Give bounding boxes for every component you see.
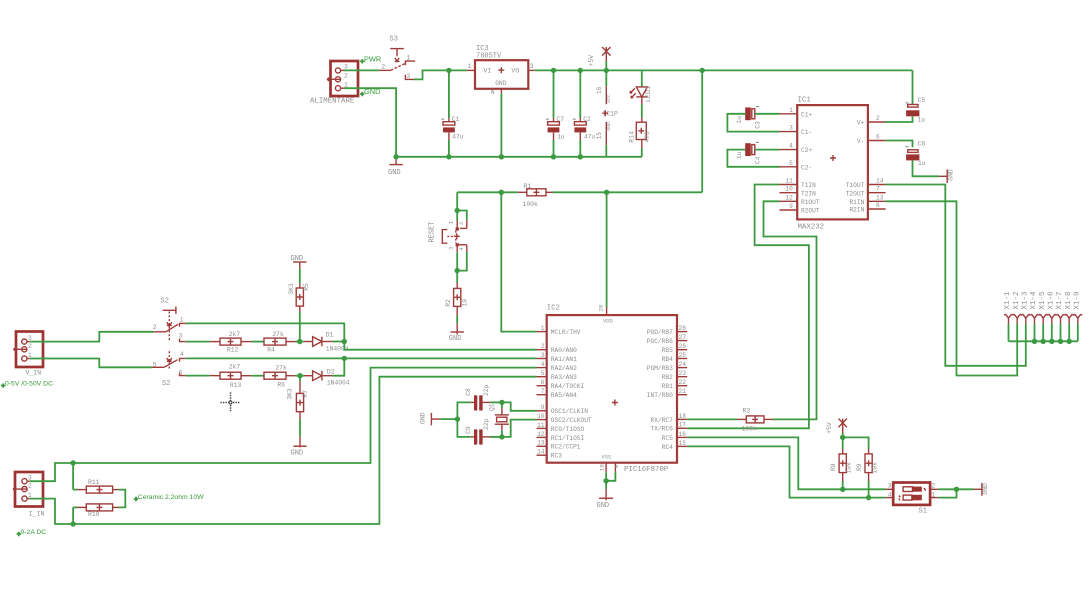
svg-text:3: 3 (406, 73, 410, 80)
wire node to RA0 (344, 342, 536, 350)
wire R1 net to VDD (606, 192, 608, 307)
svg-text:14: 14 (537, 449, 545, 456)
svg-text:2: 2 (28, 483, 32, 490)
node R9/S1 junction (866, 495, 871, 500)
svg-text:RA4/T0CKI: RA4/T0CKI (551, 383, 585, 390)
pin X1-6 (1048, 314, 1057, 318)
svg-text:C8: C8 (465, 388, 472, 396)
svg-text:T2OUT: T2OUT (846, 190, 865, 197)
power pins IC1P (605, 70, 607, 86)
resistor R14 (636, 122, 646, 139)
resistor R8 10k (842, 437, 844, 449)
svg-text:47u: 47u (452, 134, 463, 141)
svg-text:R1OUT: R1OUT (801, 199, 820, 206)
node D1/RA0 junction (342, 339, 347, 344)
svg-text:R9: R9 (856, 463, 863, 471)
svg-text:V+: V+ (857, 120, 865, 127)
svg-text:T1OUT: T1OUT (846, 182, 865, 189)
IC2 pin 15 RC4 (677, 445, 687, 447)
svg-text:TX/RC6: TX/RC6 (651, 426, 674, 433)
svg-text:GND: GND (495, 80, 506, 87)
svg-text:RB5: RB5 (662, 347, 673, 354)
S3 contact 1 (405, 61, 415, 65)
IC1 pin 13 R1IN (868, 200, 886, 202)
svg-text:3: 3 (530, 63, 534, 70)
wire X1-6 to bus (1051, 324, 1053, 342)
svg-text:2: 2 (932, 482, 936, 489)
IC1 pin 1 C1+ (780, 113, 798, 115)
S2b contact 6 (180, 373, 186, 376)
svg-text:R2: R2 (445, 299, 452, 307)
svg-text:GND: GND (982, 483, 989, 495)
svg-text:R7: R7 (302, 390, 309, 398)
svg-text:C7: C7 (556, 116, 564, 123)
wire node down to D2 cathode (333, 358, 345, 375)
wire to OSC1 (502, 402, 537, 410)
wire X1-9 to bus (1077, 324, 1079, 342)
IC2 pin 1 MCLR/THV (537, 331, 547, 333)
wire D1 cathode to node (333, 341, 345, 343)
svg-text:22p: 22p (483, 384, 490, 396)
wire RC4 to S1 pin4 (687, 446, 886, 497)
svg-text:10: 10 (537, 413, 545, 420)
pin X1-1 (1004, 314, 1013, 318)
svg-text:VDD: VDD (603, 318, 613, 324)
svg-text:RC4: RC4 (662, 444, 673, 451)
svg-text:14: 14 (876, 178, 884, 185)
wire S2a throw3 to R12 (186, 341, 210, 343)
svg-text:C5: C5 (918, 97, 926, 104)
IC2 pin 9 OSC1/CLKIN (537, 410, 547, 412)
wire I_IN pin3 to RA2 (30, 368, 537, 482)
wire R1 to RESET switch (456, 192, 458, 210)
label Ceramic 2,2ohm 10W (134, 497, 138, 501)
IC2 pin 10 OSC2/CLKOUT (537, 419, 547, 421)
svg-text:20: 20 (598, 304, 605, 311)
svg-text:C9: C9 (465, 426, 472, 434)
svg-text:RC0/T1OSO: RC0/T1OSO (551, 426, 585, 433)
IC1 pin 4 C2+ (780, 149, 798, 151)
svg-text:1: 1 (406, 55, 410, 62)
svg-text:4: 4 (888, 491, 892, 498)
wire X1-4 to bus (1034, 324, 1036, 342)
label GND (360, 92, 364, 96)
svg-text:9: 9 (789, 203, 793, 210)
wire X1-7 to bus (1060, 324, 1062, 342)
svg-text:18: 18 (679, 413, 687, 420)
wire S3 pin3 to +5V rail (414, 70, 449, 79)
IC2 pin 13 RC2/CCP1 (537, 445, 547, 447)
pin X1-2 (1013, 314, 1022, 318)
svg-text:1u: 1u (918, 160, 926, 167)
svg-text:2: 2 (344, 73, 348, 80)
pin X1-9 (1074, 314, 1083, 318)
svg-text:9: 9 (541, 404, 545, 411)
pin X1-7 (1056, 314, 1065, 318)
ground symbol right of C6 (939, 175, 947, 177)
svg-text:R1IN: R1IN (849, 199, 864, 206)
svg-text:D2: D2 (327, 368, 335, 375)
svg-text:23: 23 (679, 370, 687, 377)
svg-text:22: 22 (679, 379, 687, 386)
svg-text:22p: 22p (483, 418, 490, 430)
svg-text:X1-4: X1-4 (1030, 291, 1038, 310)
svg-text:MCLR/THV: MCLR/THV (551, 329, 581, 336)
S2a arm (154, 331, 166, 333)
node I_IN bottom junction (70, 521, 75, 526)
wire S2a throw1 to RA0 corner (186, 323, 344, 341)
wire V_IN pin1 to S2b common (30, 359, 152, 368)
wire X1-8 to bus (1068, 324, 1070, 342)
V_IN pin 2 stub (13, 347, 27, 351)
IC1 pin 14 T1OUT (868, 184, 886, 186)
S3 contact 3 (405, 75, 414, 80)
wire X1-5 to bus (1042, 324, 1044, 342)
IC2 pin 14 RC3 (537, 454, 547, 456)
IC2 pin 3 RA1/AN1 (537, 358, 547, 360)
svg-text:16: 16 (679, 431, 687, 438)
svg-text:0-5V /0-50V DC: 0-5V /0-50V DC (5, 381, 53, 388)
svg-text:Ceramic 2,2ohm 10W: Ceramic 2,2ohm 10W (138, 494, 204, 501)
+5V supply symbol (pullups) (839, 419, 847, 434)
capacitor C7 (553, 70, 555, 118)
svg-text:GND: GND (449, 335, 462, 343)
svg-text:13: 13 (537, 440, 545, 447)
connector V_IN (16, 332, 43, 368)
IC2 pin 7 RA5/AN4 (537, 394, 547, 396)
svg-text:VSS: VSS (602, 454, 612, 460)
svg-text:3: 3 (789, 125, 793, 132)
svg-text:2k7: 2k7 (229, 331, 241, 338)
svg-text:T1IN: T1IN (801, 182, 816, 189)
svg-text:R13: R13 (230, 382, 242, 389)
svg-text:R2IN: R2IN (849, 207, 864, 214)
svg-text:GND: GND (419, 412, 426, 424)
svg-text:17: 17 (679, 422, 687, 429)
IC1 pin 11 T1IN (780, 184, 798, 186)
connector I_IN (15, 472, 43, 507)
svg-text:GND: GND (606, 122, 612, 131)
IC2 VDD pin (606, 307, 608, 315)
svg-text:C2+: C2+ (801, 147, 812, 154)
I_IN pin 2 stub (13, 487, 28, 491)
wire C3 to C1- pin (727, 114, 779, 132)
svg-text:2: 2 (381, 63, 385, 70)
svg-text:1N4004: 1N4004 (327, 379, 350, 386)
svg-text:S2: S2 (161, 297, 169, 305)
wire S2b throw6 to R13 (186, 375, 210, 377)
svg-text:3K3: 3K3 (288, 283, 295, 295)
svg-text:R14: R14 (629, 131, 636, 143)
svg-text:2: 2 (153, 324, 157, 331)
svg-text:RA2/AN2: RA2/AN2 (551, 365, 577, 372)
svg-text:RB4: RB4 (662, 356, 673, 363)
svg-text:X1-6: X1-6 (1047, 291, 1055, 310)
svg-text:8: 8 (613, 464, 620, 468)
node R1/RESET junction (455, 208, 460, 213)
svg-text:2: 2 (876, 115, 880, 122)
svg-text:6: 6 (179, 370, 183, 377)
wire R13 to R6 (251, 375, 264, 377)
svg-text:25: 25 (679, 352, 687, 359)
svg-text:C2-: C2- (801, 164, 812, 171)
svg-text:R6: R6 (277, 381, 285, 388)
capacitor C4 1u (745, 143, 751, 156)
svg-text:470: 470 (644, 131, 651, 143)
svg-text:R3: R3 (743, 408, 751, 415)
svg-text:C1: C1 (452, 116, 460, 123)
wire R1IN to X1-2 (886, 201, 1018, 375)
svg-text:RC3: RC3 (551, 453, 562, 460)
capacitor C8 22p (457, 402, 470, 419)
wire R1OUT to R3 (764, 201, 817, 419)
capacitor C3 1u (745, 107, 751, 120)
svg-text:X1-8: X1-8 (1065, 291, 1073, 310)
svg-text:MAX232: MAX232 (798, 224, 825, 232)
svg-text:IC2: IC2 (547, 305, 560, 313)
ground symbol below IC2 (605, 481, 607, 490)
connector ALIMENTARE (331, 61, 359, 96)
svg-text:47u: 47u (584, 134, 595, 141)
svg-text:X1-3: X1-3 (1021, 291, 1029, 310)
IC2 pin 18 RX/RC7 (677, 418, 687, 420)
bus wire X1 (1009, 340, 1078, 342)
svg-text:R8: R8 (830, 463, 837, 471)
svg-text:X1-7: X1-7 (1056, 291, 1064, 309)
svg-text:2k7: 2k7 (229, 364, 241, 371)
svg-text:27: 27 (679, 334, 687, 341)
svg-text:R12: R12 (227, 346, 239, 353)
label 0-2A DC (17, 532, 21, 536)
IC2 VSS pins 19 and 8 (605, 463, 607, 473)
svg-text:C3: C3 (754, 121, 761, 129)
IC1 pin 2 V+ (868, 121, 886, 123)
wire ALIMENTARE pin3 to S3 (344, 69, 379, 71)
svg-text:X1-5: X1-5 (1039, 291, 1047, 310)
RESET button actuator (442, 230, 447, 244)
wire ALIMENTARE pin1 to ground rail (344, 88, 396, 157)
svg-text:C4: C4 (754, 156, 761, 164)
svg-text:8: 8 (876, 202, 880, 209)
node C8/C9 gnd junction (455, 416, 460, 421)
IC2 pin 26 RB5 (677, 349, 687, 351)
svg-text:15: 15 (679, 440, 687, 447)
svg-text:100k: 100k (742, 425, 758, 432)
svg-text:5: 5 (153, 361, 157, 368)
svg-text:GND: GND (388, 169, 401, 177)
wire R12 to R4 (251, 341, 264, 343)
svg-text:N: N (491, 89, 495, 96)
svg-text:21: 21 (679, 388, 687, 395)
svg-text:27k: 27k (272, 331, 284, 338)
svg-text:10: 10 (462, 299, 469, 307)
pin X1-5 (1039, 314, 1048, 318)
svg-text:PIC16F870P: PIC16F870P (624, 466, 669, 474)
svg-text:S3: S3 (390, 36, 398, 44)
svg-text:6: 6 (876, 134, 880, 141)
svg-text:OSC1/CLKIN: OSC1/CLKIN (551, 408, 588, 415)
wire S1 pin1 to ground (938, 489, 956, 497)
wire X1-1 to bus (1008, 324, 1010, 342)
wire R11 to R10 (right side) (119, 490, 126, 508)
wire R1 net (457, 191, 518, 193)
svg-text:1: 1 (448, 221, 455, 225)
svg-text:2: 2 (458, 221, 465, 225)
IC2 pin 16 RC5 (677, 436, 687, 438)
frame reference cross (221, 392, 241, 412)
svg-text:X1-1: X1-1 (1004, 291, 1012, 310)
label 0-5V /0-50V DC (1, 383, 5, 387)
svg-text:4: 4 (458, 247, 465, 251)
svg-text:1u: 1u (736, 116, 743, 124)
svg-text:6: 6 (541, 379, 545, 386)
svg-text:2: 2 (28, 343, 32, 350)
svg-text:C6: C6 (918, 141, 926, 148)
IC1 pin 12 R1OUT (780, 200, 798, 202)
+5V supply symbol (602, 47, 610, 62)
svg-text:T2IN: T2IN (801, 190, 816, 197)
svg-text:1: 1 (180, 316, 184, 323)
svg-text:27k: 27k (275, 364, 287, 371)
svg-text:24: 24 (679, 361, 687, 368)
S3 arm (379, 69, 391, 71)
svg-text:28: 28 (679, 325, 687, 332)
svg-text:4: 4 (789, 143, 793, 150)
ground symbol below R2 (451, 331, 464, 333)
resistor R9 10k (843, 437, 869, 449)
svg-text:D1: D1 (326, 332, 334, 339)
svg-text:X1-2: X1-2 (1013, 291, 1021, 310)
svg-text:10: 10 (785, 186, 793, 193)
IC2 pin 11 RC0/T1OSO (537, 427, 547, 429)
svg-text:3: 3 (179, 332, 183, 339)
LED1 (641, 70, 643, 87)
svg-text:100k: 100k (523, 201, 539, 208)
svg-text:R2OUT: R2OUT (801, 208, 820, 215)
IC1 pin 5 C2- (780, 166, 798, 168)
capacitor C5 1u (912, 70, 914, 104)
ground symbol right of S1 (974, 488, 982, 490)
svg-text:LED1: LED1 (645, 86, 653, 102)
svg-text:3: 3 (888, 483, 892, 490)
IC1 pin 3 C1- (780, 131, 798, 133)
IC2 pin 23 RB2 (677, 376, 687, 378)
svg-text:PGD/RB7: PGD/RB7 (647, 329, 673, 336)
IC2 pin 24 PGM/RB3 (677, 367, 687, 369)
svg-text:C1-: C1- (801, 129, 812, 136)
svg-text:2: 2 (541, 343, 545, 350)
svg-text:0-2A DC: 0-2A DC (21, 529, 47, 536)
ground symbol below rail (395, 157, 397, 165)
capacitor C9 22p (457, 419, 470, 437)
svg-text:VI: VI (484, 67, 492, 74)
wire R1 net to MCLR (501, 192, 536, 331)
svg-text:10k: 10k (871, 462, 878, 474)
svg-text:RB2: RB2 (662, 374, 673, 381)
svg-text:13: 13 (876, 194, 884, 201)
svg-text:C2: C2 (583, 116, 591, 123)
IC2 pin 5 RA3/AN3 (537, 376, 547, 378)
svg-text:R5: R5 (303, 283, 310, 291)
svg-text:12: 12 (537, 431, 545, 438)
svg-text:16: 16 (596, 86, 603, 94)
svg-text:RA3/AN3: RA3/AN3 (551, 374, 577, 381)
svg-text:26: 26 (679, 343, 687, 350)
S2a contact 3 (180, 339, 186, 342)
resistor R7 with ground (299, 376, 301, 382)
svg-text:VCC: VCC (606, 94, 612, 103)
svg-text:ALIMENTARE: ALIMENTARE (310, 98, 355, 106)
svg-text:+5V: +5V (826, 422, 833, 434)
svg-text:3K3: 3K3 (286, 388, 293, 400)
svg-text:1: 1 (541, 325, 545, 332)
node R1 junction (VDD branch) (604, 190, 609, 195)
svg-text:4: 4 (180, 351, 184, 358)
IC1 pin 9 R2OUT (780, 209, 798, 211)
svg-text:RX/RC7: RX/RC7 (651, 417, 674, 424)
svg-text:VO: VO (512, 67, 520, 74)
node S1 gnd junction (954, 487, 959, 492)
svg-text:5: 5 (541, 370, 545, 377)
IC2 pin 28 PGD/RB7 (677, 331, 687, 333)
svg-text:RA1/AN1: RA1/AN1 (551, 356, 577, 363)
svg-text:RB1: RB1 (662, 383, 673, 390)
node R6/R7/D2 junction (297, 373, 302, 378)
pin X1-4 (1030, 314, 1039, 318)
IC1 pin 10 T2IN (780, 192, 798, 194)
wire +5V rail to R1 net (701, 70, 703, 192)
wire R3 to RX/RC7 (687, 418, 737, 420)
wire RESET to R2 (456, 271, 458, 283)
svg-text:1u: 1u (557, 134, 565, 141)
svg-text:11: 11 (537, 422, 545, 429)
wire to OSC2 (502, 420, 537, 437)
wire V_IN pin3 to S2a common (30, 332, 154, 342)
svg-text:V_IN: V_IN (26, 369, 42, 376)
svg-text:S1: S1 (919, 508, 927, 516)
node R4/R5/D1 junction (297, 339, 302, 344)
node crystal top junction (499, 400, 504, 405)
resistor R2 (454, 288, 461, 306)
IC2 pin 12 RC1/T1OSI (537, 436, 547, 438)
svg-text:RC1/T1OSI: RC1/T1OSI (551, 435, 585, 442)
wire C4 to C2- pin (727, 150, 779, 167)
capacitor C2 (579, 70, 581, 118)
ground rail (bottom) (396, 156, 642, 158)
svg-text:RA5/AN4: RA5/AN4 (551, 392, 577, 399)
svg-text:X1-9: X1-9 (1073, 291, 1081, 310)
svg-text:GND: GND (291, 449, 304, 457)
wire S2b throw4 to RA1 (186, 357, 537, 359)
+5V rail (top) (449, 69, 467, 71)
svg-text:4: 4 (541, 361, 545, 368)
IC2 pin 4 RA2/AN2 (537, 367, 547, 369)
svg-text:OSC2/CLKOUT: OSC2/CLKOUT (551, 417, 592, 424)
IC1 pin 6 V- (868, 140, 886, 142)
node R8/S1 junction (840, 487, 845, 492)
svg-text:3: 3 (541, 352, 545, 359)
wire RC5 to S1 pin3 (687, 437, 886, 489)
svg-text:RC5: RC5 (662, 435, 673, 442)
svg-text:3: 3 (448, 246, 455, 250)
node R1 junction (MCLR branch) (499, 190, 504, 195)
pin 2 stub (unconnected) (327, 77, 341, 81)
svg-text:1: 1 (789, 107, 793, 114)
wire I_IN pin1 to RA3 (30, 377, 537, 524)
IC1 pin 7 T2OUT (868, 192, 886, 194)
node VSS junction (603, 478, 608, 483)
wire R4 to D1 (295, 341, 303, 343)
